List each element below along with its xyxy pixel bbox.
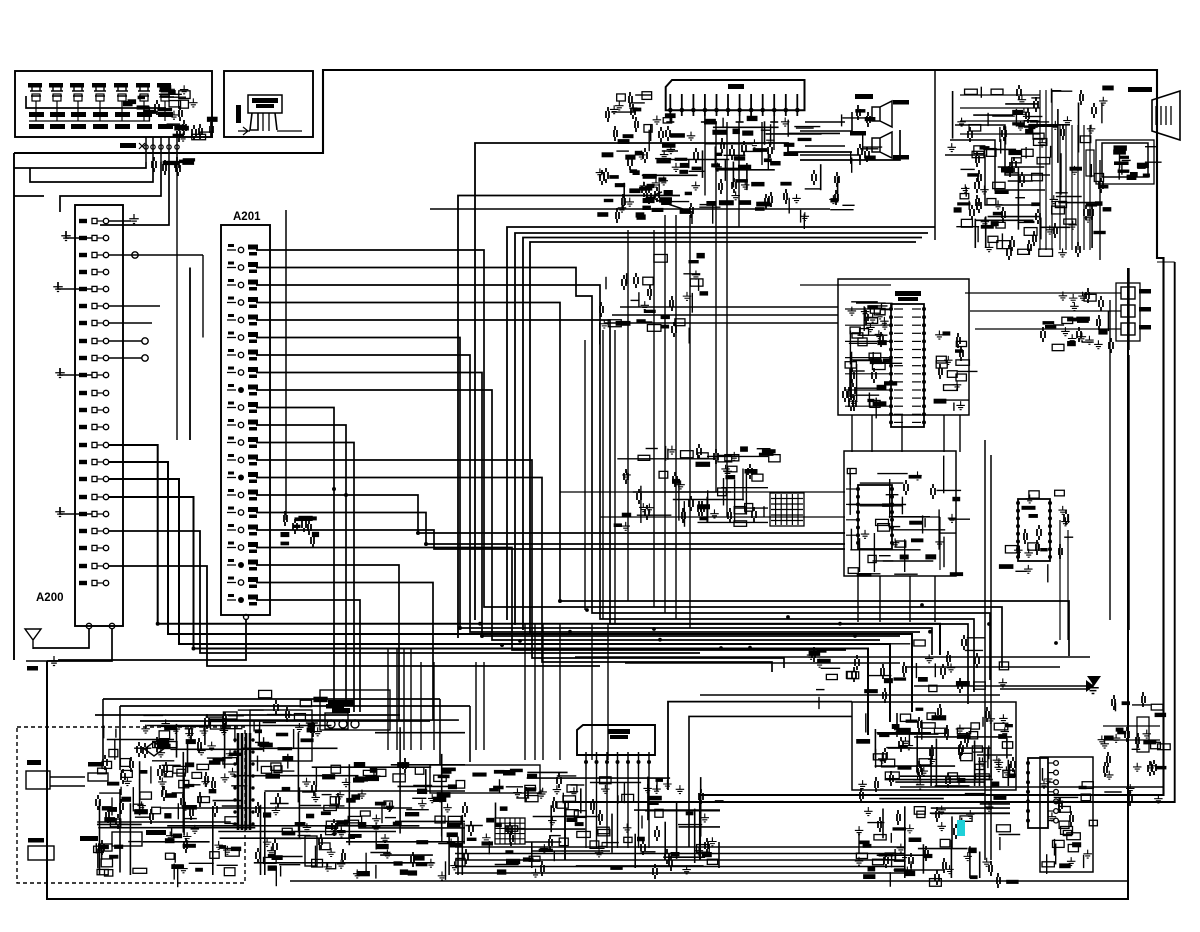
connector below box1: [120, 143, 195, 176]
wire A201 pin17: [256, 530, 845, 549]
wire A201 pin15: [256, 495, 845, 533]
wire bottom border: [47, 268, 1128, 899]
standby cluster2: [220, 690, 328, 737]
flyback box: [1040, 757, 1093, 872]
crystal cluster X01: [281, 511, 320, 548]
dashed power box: [17, 727, 245, 883]
wire A200 p12 bus: [109, 462, 912, 712]
wire U601 drop3: [738, 122, 740, 227]
wire A200 p14 bus: [109, 497, 868, 735]
wire v665: [664, 215, 666, 613]
connector A201 bottom pin: [244, 615, 249, 620]
IC U02 pins: [856, 487, 894, 545]
bridge rectifier: [145, 742, 164, 756]
fuse F801: [88, 762, 108, 781]
speaker SP602: [850, 131, 909, 160]
speaker SP601: [855, 94, 909, 127]
label remote vertical: [236, 105, 241, 123]
vert cluster: [482, 773, 724, 879]
IC U02 box: [844, 451, 956, 576]
junction dots bus2: [478, 622, 932, 650]
regulator block: [430, 765, 540, 793]
power cluster L: [94, 712, 253, 887]
wire tr zig1: [955, 125, 1050, 175]
label U601: [728, 84, 744, 89]
wire riser4: [530, 242, 916, 635]
wire A201 pin4: [256, 303, 1069, 657]
power switch SW801: [28, 838, 54, 860]
wire cc h2: [600, 516, 845, 518]
IC U801 box: [838, 279, 969, 415]
IF cluster3: [600, 253, 708, 345]
wire A200 bottom wires: [33, 629, 112, 661]
wire right border outer: [565, 262, 1175, 860]
wire bottom verticals2: [985, 440, 991, 860]
wire u801 top: [800, 284, 891, 286]
wire LA pin drops: [586, 770, 649, 848]
center wire mesh: [617, 456, 768, 523]
IF cluster2: [706, 170, 854, 229]
wire jungle left feeds: [845, 309, 891, 406]
wire A201 pin7: [256, 355, 920, 632]
power wire mesh: [97, 720, 465, 875]
AV frame: [1116, 283, 1140, 341]
sound wire mesh: [875, 713, 1012, 786]
STR block: [325, 704, 348, 729]
wire left border vertical: [13, 153, 15, 660]
wire u601 zig2: [800, 130, 900, 160]
IC U03 body: [1018, 499, 1050, 561]
wire bottom h787: [900, 786, 1164, 788]
wire A201 pin12: [256, 443, 354, 713]
IC U601 body: [666, 80, 805, 110]
IC U02 body: [858, 485, 892, 549]
wire inner frame x458: [458, 196, 680, 639]
grid block RP1: [770, 493, 804, 526]
wire riser3: [523, 238, 922, 631]
wire A201 bottom drop: [58, 620, 246, 660]
resistor labels: [29, 124, 173, 129]
resistors R101-R107: [29, 108, 173, 121]
connector A201 pins: [227, 244, 258, 606]
junction dots stair: [156, 487, 562, 651]
topcenter wire mesh: [624, 121, 840, 206]
right bottom cluster: [1098, 692, 1171, 806]
wire micro left feeds: [846, 489, 858, 535]
wire power feed3: [95, 714, 400, 716]
wire A201 pin1: [256, 250, 1002, 668]
wire tr hrows: [960, 95, 1040, 134]
wire tr v1100: [1099, 160, 1101, 260]
wire A200 p16 bus: [109, 566, 600, 666]
wire av h1: [965, 292, 1121, 294]
wire v585: [584, 340, 586, 610]
wire power feed1: [103, 698, 440, 700]
AV cluster: [1041, 288, 1113, 353]
wire tr verts: [1060, 125, 1090, 250]
wire A200 p6: [109, 305, 160, 307]
wire tr zig2: [950, 140, 1045, 190]
wire v676: [675, 215, 677, 619]
wire v286: [285, 210, 287, 520]
center cluster: [614, 444, 780, 530]
wire tr extra verts: [1040, 90, 1052, 250]
wire bc verts: [525, 624, 608, 760]
wire riser2: [515, 233, 928, 625]
connector grid tr: [1086, 150, 1094, 176]
wire u02 out: [892, 517, 940, 570]
wire cc h: [560, 491, 845, 493]
wire v654: [653, 230, 655, 607]
sound cluster3: [855, 788, 1020, 888]
transformer T601: [842, 105, 883, 173]
wire A200 p5 gnd: [53, 282, 92, 292]
keyboard right components: [149, 85, 217, 142]
wire U601 drop2: [726, 122, 728, 517]
sound cluster1: [856, 704, 1016, 792]
wire v615: [614, 330, 616, 624]
wire stair kb2: [30, 162, 153, 182]
wire A201 pin8: [256, 373, 900, 637]
wire jungle in1: [620, 306, 838, 308]
wire spk bundle: [800, 112, 860, 165]
svg-text:A200: A200: [36, 592, 64, 604]
gnd right: [1000, 676, 1101, 694]
wire v603: [602, 330, 604, 619]
wire U601 drop1: [715, 122, 717, 492]
wire h695: [700, 694, 1000, 696]
IC LA78040 body: [577, 725, 655, 755]
wire long vertical x177: [176, 162, 178, 440]
AC plug: [26, 760, 85, 789]
jungle wire mesh: [849, 302, 888, 400]
wire bc h657: [575, 656, 1090, 658]
wire A201 pin11: [256, 425, 346, 700]
connector box remote: [224, 71, 313, 137]
junction dots bus: [518, 603, 1058, 650]
wire U601 drop6: [704, 122, 706, 196]
wire av h2: [970, 310, 1121, 312]
IR receiver U301: [238, 95, 302, 135]
sound wire mesh2: [877, 799, 1010, 878]
topright wire mesh: [953, 91, 1096, 248]
IF shape: [654, 192, 692, 224]
U02 cluster: [847, 468, 970, 576]
IC U801 body: [891, 304, 924, 427]
tuner cluster: [596, 148, 721, 223]
wire U601 drop4: [761, 122, 763, 165]
connector A200 bottom pins: [86, 623, 114, 628]
wire bc h663: [625, 662, 900, 664]
wire A201 pin16: [256, 513, 845, 545]
wire y209: [430, 208, 830, 210]
AV jack L-in: [1121, 323, 1151, 335]
wire stair v190: [189, 268, 191, 441]
wire stair kb1: [14, 162, 146, 168]
transformer T801: [233, 733, 254, 830]
wire right v1110: [1109, 300, 1111, 620]
micro wire mesh: [849, 456, 946, 572]
wire A200 p13 bus: [109, 479, 890, 722]
connector A200 pins: [79, 218, 109, 585]
svg-text:A201: A201: [233, 211, 261, 223]
wire A200 p1: [109, 214, 139, 224]
small box rb: [1137, 717, 1149, 752]
IC U801 pins: [889, 307, 926, 424]
power verticals: [388, 649, 484, 751]
standby box: [320, 690, 390, 730]
wire jungle below: [852, 415, 960, 452]
AV jack V-in: [1121, 287, 1151, 299]
wire A201 pin20: [256, 583, 433, 721]
wire A201 pin6: [256, 338, 932, 656]
wire A200 p14b gnd: [55, 507, 92, 517]
grid block bottom: [495, 818, 525, 844]
keyboard buttons SW101-SW107: [28, 83, 171, 108]
connector box keyboard: [15, 71, 212, 137]
tuner upper cluster: [606, 92, 676, 151]
wire bottom bundle5: [455, 847, 905, 873]
top right cluster: [947, 85, 1113, 260]
wire A201 pin19: [256, 565, 399, 720]
wire tr zig3: [945, 155, 1040, 205]
vert wire mesh: [496, 772, 721, 868]
U801 left cluster: [843, 303, 902, 418]
wire rb h686: [914, 680, 1094, 692]
wire stair kb3: [60, 162, 161, 212]
wire A201 pin2: [256, 268, 990, 681]
wire A200 p10 gnd: [55, 368, 92, 378]
wire av h3: [975, 328, 1121, 330]
wire A200 p8: [109, 338, 148, 344]
wire A200 p7: [109, 322, 152, 324]
wire jungle in2: [612, 314, 838, 316]
wire tr v935: [934, 70, 936, 240]
U801 right cluster: [934, 331, 978, 411]
wire A201 pin18: [256, 548, 846, 651]
wire u03 links: [1060, 520, 1068, 640]
wire keyboard bottom bus: [29, 120, 150, 122]
IC H-out pins: [1026, 761, 1058, 823]
wire power feed2: [120, 705, 470, 707]
standby circles: [327, 700, 359, 728]
optocoupler: [305, 836, 317, 866]
wire jungle in3: [605, 322, 838, 324]
wire keyboard bus: [26, 96, 166, 108]
wire A201 pin13: [256, 460, 784, 668]
wire power feed drops: [103, 699, 470, 770]
wire kb extra: [14, 195, 44, 197]
connector A200 box: [75, 205, 123, 626]
antenna ANT: [25, 629, 59, 671]
wire frame LA right1: [668, 702, 852, 790]
wire power feed4: [140, 720, 430, 722]
wire A201 pin3: [256, 285, 974, 692]
wire right v1129: [1128, 268, 1130, 630]
wire U601 drop5: [773, 122, 775, 150]
wire frame LA right2: [689, 716, 852, 847]
AV jack R-in: [1121, 305, 1151, 317]
wire stair kb4: [100, 162, 169, 225]
wire micro below: [858, 576, 935, 622]
wire A201 pin5: [256, 320, 968, 704]
CRT socket: [1102, 143, 1162, 180]
wire A200 p3: [109, 252, 203, 338]
wire A201 pin9: [256, 390, 880, 640]
wire spk: [805, 122, 845, 146]
label A200: [36, 592, 64, 604]
wire keyboard drops: [146, 137, 177, 162]
power control box: [250, 710, 318, 771]
degauss: [80, 830, 166, 846]
label U801: [895, 291, 921, 301]
wire A200 p2 gnd: [61, 231, 92, 241]
keyboard mid small: [123, 96, 156, 114]
power cluster R: [256, 758, 483, 886]
sound box: [852, 702, 1016, 790]
wire rb h667: [905, 666, 1060, 668]
wire bottom border 2: [290, 880, 1128, 882]
wire A201 pin21: [256, 600, 360, 712]
wire rb pair: [1103, 726, 1160, 740]
IC U03 pins: [1016, 501, 1052, 559]
wire v628: [627, 230, 629, 601]
label A201: [233, 211, 261, 223]
CRT pcb frame: [1096, 140, 1154, 184]
wire inner frame x475: [475, 143, 852, 620]
flyback cluster: [1040, 768, 1098, 874]
wire A201 pin14: [256, 478, 772, 673]
wire A200 p9: [109, 355, 148, 361]
wire A201 pin10: [256, 408, 334, 701]
IC U601 pins: [666, 94, 799, 122]
wire A200 p11 bus: [109, 445, 940, 655]
sound cluster2: [807, 635, 1009, 709]
IC LA78040 pins: [584, 752, 651, 770]
wire v690: [689, 215, 691, 628]
U601 below cluster: [643, 116, 820, 181]
IC H-out body: [1028, 758, 1048, 828]
CRT funnel: [1128, 87, 1180, 140]
wire riser1: [507, 227, 935, 620]
cyan marker: [957, 820, 965, 836]
wire A200 p15 bus: [109, 531, 700, 653]
U03 cluster: [999, 490, 1073, 582]
connector A201 box: [221, 225, 270, 615]
